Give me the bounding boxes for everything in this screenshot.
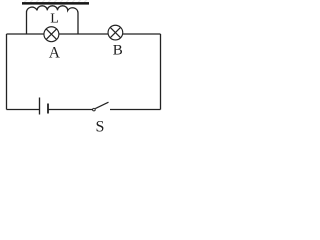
- wire bottom-right: [110, 109, 161, 111]
- wire right: [160, 34, 162, 110]
- battery short plate: [47, 104, 49, 114]
- wire left: [6, 34, 8, 110]
- iron core bar: [22, 2, 89, 5]
- switch S pivot: [93, 108, 96, 111]
- svg-text:A: A: [49, 45, 61, 62]
- wire top: [7, 33, 161, 35]
- lamp A: [44, 27, 59, 42]
- wire bottom-middle: [48, 109, 94, 111]
- svg-text:S: S: [96, 119, 105, 136]
- lamp B: [108, 25, 123, 40]
- svg-text:L: L: [50, 12, 59, 27]
- battery long plate: [39, 98, 41, 115]
- wire bottom-left: [7, 109, 40, 111]
- inductor coil L: [26, 6, 78, 34]
- svg-text:B: B: [113, 43, 123, 59]
- switch blade: [95, 102, 108, 108]
- iron core hatching: [24, 0, 87, 2]
